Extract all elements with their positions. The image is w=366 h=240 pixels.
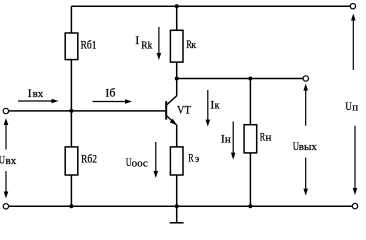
svg-text:U: U <box>0 155 5 168</box>
node: junction input / base divider <box>69 109 73 113</box>
wire left branch upper <box>70 6 72 33</box>
resistor Rэ <box>170 147 183 175</box>
svg-text:R: R <box>188 152 194 165</box>
svg-text:вых: вых <box>299 141 318 153</box>
svg-text:VT: VT <box>177 104 191 117</box>
arrow current Iб <box>93 99 133 104</box>
svg-text:Rб2: Rб2 <box>81 153 97 166</box>
svg-text:Rk: Rk <box>141 40 152 51</box>
svg-text:оос: оос <box>132 157 148 169</box>
resistor Rн <box>244 125 257 153</box>
arrow current IRк <box>157 27 162 60</box>
svg-text:вх: вх <box>6 155 17 167</box>
wire bottom rail <box>9 205 353 207</box>
wire Rн lead top <box>249 79 251 125</box>
wire Rн lead bottom <box>249 153 251 206</box>
svg-text:Rб1: Rб1 <box>81 39 97 52</box>
arrow current Iвх <box>18 99 59 104</box>
terminal: input top-left <box>3 108 8 113</box>
wire output <box>177 78 304 80</box>
terminal: supply top-right <box>350 3 355 8</box>
wire left branch lower <box>70 111 72 147</box>
ground <box>176 206 178 223</box>
terminal: output <box>303 76 308 81</box>
arrow voltage Uп down <box>353 126 358 195</box>
wire top rail <box>71 5 350 7</box>
svg-text:U: U <box>345 100 352 113</box>
wire emitter bottom lead <box>176 175 178 206</box>
node: junction top rail / Rк <box>175 4 179 8</box>
arrow voltage Uвх down <box>4 171 9 199</box>
wire left branch middle <box>70 60 72 111</box>
svg-text:н: н <box>266 131 272 143</box>
transistor VT <box>166 96 177 125</box>
arrow voltage Uвх up <box>4 118 9 150</box>
wire Rк lead top <box>176 6 178 30</box>
wire input <box>8 110 166 112</box>
svg-text:Iб: Iб <box>105 86 115 100</box>
terminal: input bottom-left <box>3 204 8 209</box>
wire left branch bottom <box>70 175 72 206</box>
arrow voltage Uоос <box>154 142 159 178</box>
arrow current Iк <box>206 90 211 127</box>
svg-text:к: к <box>215 101 220 112</box>
wire emitter lead <box>176 125 178 147</box>
resistor Rб1 <box>65 33 78 60</box>
node: junction bottom / Rн <box>248 204 252 208</box>
node: junction output / Rн <box>248 77 252 81</box>
arrow voltage Uвых up <box>303 84 308 126</box>
wire collector lead <box>176 62 178 96</box>
arrow voltage Uвых down <box>303 158 308 196</box>
svg-text:I: I <box>28 86 32 100</box>
node: junction bottom / emitter <box>175 204 179 208</box>
svg-text:к: к <box>191 40 196 51</box>
resistor Rк <box>170 30 183 62</box>
terminal: supply bottom-right <box>352 203 357 208</box>
arrow current Iн <box>231 121 236 159</box>
svg-text:вх: вх <box>33 88 44 100</box>
resistor Rб2 <box>65 147 78 175</box>
node: junction collector / output <box>175 77 179 81</box>
svg-text:п: п <box>352 101 358 113</box>
node: junction bottom / divider <box>69 204 73 208</box>
svg-text:э: э <box>195 154 199 165</box>
svg-text:I: I <box>135 33 139 47</box>
svg-text:н: н <box>225 133 231 145</box>
arrow voltage Uп up <box>351 14 356 71</box>
